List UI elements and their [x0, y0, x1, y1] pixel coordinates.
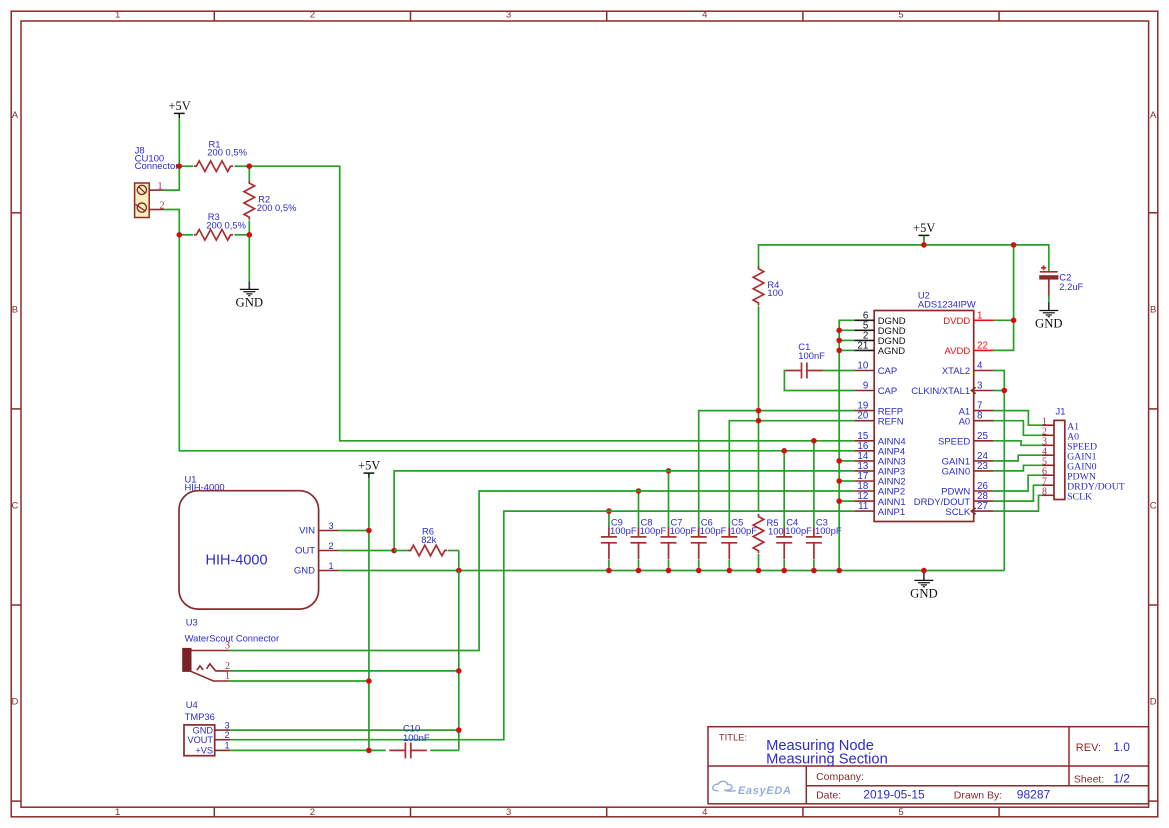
U2 pin 21 AGND: [854, 340, 905, 357]
U2 pin 7 A1: [959, 401, 994, 418]
svg-text:100nF: 100nF: [403, 732, 430, 743]
wire U4 GND row: [230, 729, 459, 731]
svg-text:Drawn By:: Drawn By:: [954, 790, 1002, 802]
junction VIN/+5V: [366, 528, 372, 534]
U2 pin 24 GAIN1: [942, 451, 994, 468]
IC U4 TMP36: [184, 699, 215, 756]
svg-text:8: 8: [977, 411, 983, 422]
junction C7 bottom: [666, 568, 672, 574]
svg-text:11: 11: [858, 501, 868, 512]
junction C4 bottom: [781, 568, 787, 574]
svg-text:2: 2: [329, 541, 334, 551]
svg-text:HIH-4000: HIH-4000: [185, 481, 225, 492]
J1 pin 3: [1042, 437, 1054, 448]
junction bus/DGND vertical: [836, 568, 842, 574]
resistor R3: [194, 211, 246, 240]
svg-text:98287: 98287: [1017, 788, 1051, 802]
svg-text:100pF: 100pF: [785, 525, 812, 536]
svg-text:9: 9: [863, 381, 868, 392]
wire VIN to +5V: [339, 530, 369, 532]
wire DGND bus (left of U2): [839, 320, 854, 570]
svg-text:2: 2: [310, 807, 315, 818]
IC U2 ADS1234IPW: [874, 290, 976, 522]
svg-text:1: 1: [158, 181, 163, 192]
net label SCLK: [1067, 492, 1092, 503]
wire DVDD/AVDD supply: [994, 245, 1014, 351]
junction DGND pin5: [836, 328, 842, 334]
U2 pin 18 AINP2: [854, 481, 905, 498]
net label A1: [1067, 422, 1079, 433]
junction C6 bottom: [696, 568, 702, 574]
wire R2 leads: [248, 166, 250, 235]
wire R1 right to AINN4: [249, 166, 854, 441]
power flag +5V (top left): [169, 99, 191, 118]
U2 pin 25 SPEED: [938, 431, 994, 448]
capacitor C10: [389, 723, 430, 759]
U2 pin 26 PDWN: [941, 481, 994, 498]
junction R3 left: [177, 232, 183, 238]
svg-text:B: B: [1150, 304, 1156, 315]
svg-text:4: 4: [702, 10, 707, 21]
J1 pin 6: [1042, 466, 1054, 477]
ground (C2): [1035, 303, 1063, 331]
svg-text:1/2: 1/2: [1113, 772, 1130, 786]
svg-text:22: 22: [977, 340, 988, 351]
wire A1: [994, 411, 1042, 426]
svg-text:Connector: Connector: [135, 161, 179, 172]
junction R2/R3/GND: [247, 232, 253, 238]
wire GND bus bottom: [339, 570, 1004, 572]
svg-text:OUT: OUT: [295, 546, 315, 557]
U4 pin 1 +VS: [195, 741, 230, 756]
junction U3 pin1/+5V: [366, 678, 372, 684]
svg-text:5: 5: [898, 10, 903, 21]
net label GAIN0: [1067, 462, 1096, 473]
wire U3 pin2 to GND drop: [229, 670, 459, 672]
U1 pin 1 GND: [294, 561, 339, 577]
junction C9 bottom: [606, 568, 612, 574]
junction DVDD: [1011, 318, 1017, 324]
svg-text:10: 10: [857, 361, 868, 372]
svg-text:DVDD: DVDD: [943, 316, 970, 327]
sensor U1 HIH-4000: [179, 474, 319, 610]
svg-text:Sheet:: Sheet:: [1074, 774, 1104, 786]
svg-text:Company:: Company:: [816, 771, 864, 783]
U2 pin 27 SCLK: [945, 501, 993, 518]
capacitor C5: [721, 516, 757, 570]
svg-text:100pF: 100pF: [700, 525, 727, 536]
svg-text:REFN: REFN: [878, 416, 904, 427]
junction +VS/+5V: [366, 748, 372, 754]
capacitor C2: [1039, 265, 1083, 295]
U1 pin 3 VIN: [299, 521, 339, 537]
wire U3 pin3 to AINP2: [229, 491, 854, 651]
wire XTAL2/CLKIN to GND bus: [994, 371, 1005, 571]
U3 pin 3: [192, 641, 231, 652]
svg-text:J1: J1: [1056, 406, 1066, 417]
net label PDWN: [1067, 472, 1096, 483]
svg-text:5: 5: [898, 807, 903, 818]
U2 pin 16 AINP4: [854, 441, 905, 458]
svg-text:VIN: VIN: [299, 526, 315, 537]
U1 pin 2 OUT: [295, 541, 339, 557]
resistor R1: [194, 138, 247, 171]
svg-text:4: 4: [702, 807, 707, 818]
U2 pin 28 DRDY/DOUT: [914, 491, 994, 508]
U2 pin 9 CAP: [854, 381, 897, 398]
capacitor C7: [661, 471, 697, 571]
svg-text:100pF: 100pF: [815, 525, 842, 536]
svg-text:2: 2: [310, 10, 315, 21]
junction AINN1: [836, 498, 842, 504]
junction C3 top: [811, 438, 817, 444]
svg-text:3: 3: [506, 10, 511, 21]
wire R1 row: [179, 165, 249, 167]
junction C3 bottom: [811, 568, 817, 574]
svg-text:SPEED: SPEED: [938, 437, 970, 448]
J1 pin 7: [1042, 476, 1054, 487]
svg-text:1: 1: [225, 741, 230, 751]
J1 pin 1: [1042, 416, 1054, 427]
svg-text:GAIN0: GAIN0: [942, 467, 971, 478]
U4 pin 2 VOUT: [187, 730, 230, 745]
J8 pin 2: [149, 200, 164, 211]
svg-text:AGND: AGND: [878, 346, 906, 357]
junction bus/GND flag: [921, 568, 927, 574]
svg-text:1.0: 1.0: [1113, 740, 1130, 754]
U2 pin 8 A0: [959, 411, 994, 428]
svg-text:4: 4: [977, 361, 983, 372]
EasyEDA logo: [713, 781, 792, 797]
wire REFN row: [729, 421, 854, 536]
wire +5V to J8 pin1 and R1: [163, 118, 179, 190]
junction R5 bottom: [756, 568, 762, 574]
svg-text:100nF: 100nF: [798, 350, 825, 361]
J1 pin 8: [1042, 487, 1054, 498]
svg-text:VOUT: VOUT: [187, 735, 213, 745]
wire C2 to GND: [1048, 296, 1050, 303]
connector J8: [135, 146, 179, 218]
U4 pin 3 GND: [193, 720, 231, 735]
junction DGND pin2: [836, 338, 842, 344]
power flag +5V (top right): [913, 221, 935, 240]
wire J8 pin2 to AINP4: [163, 210, 854, 451]
svg-text:WaterScout Connector: WaterScout Connector: [185, 632, 280, 643]
wire GND drop (bus to C10): [458, 571, 460, 751]
junction CLKIN: [1002, 388, 1008, 394]
wire +5V rail: [759, 236, 1049, 272]
U2 pin 1 DVDD: [943, 310, 993, 327]
svg-text:100: 100: [768, 525, 784, 536]
svg-text:1: 1: [115, 10, 120, 21]
junction C8 top: [636, 488, 642, 494]
wire R5 bottom: [758, 554, 760, 571]
svg-text:HIH-4000: HIH-4000: [205, 553, 267, 569]
svg-text:CLKIN/XTAL1: CLKIN/XTAL1: [911, 386, 970, 397]
U2 pin 20 REFN: [854, 411, 904, 428]
svg-text:20: 20: [857, 411, 868, 422]
svg-text:TMP36: TMP36: [185, 711, 215, 722]
junction C5 bottom: [727, 568, 733, 574]
junction +5V/R1: [177, 163, 183, 169]
svg-text:2019-05-15: 2019-05-15: [863, 788, 925, 802]
net label DRDY/DOUT: [1067, 482, 1125, 493]
svg-text:C: C: [1150, 500, 1157, 511]
resistor R4: [753, 266, 783, 305]
svg-text:200 0,5%: 200 0,5%: [207, 147, 247, 158]
U2 pin 23 GAIN0: [942, 461, 994, 478]
svg-text:100pF: 100pF: [670, 525, 697, 536]
junction C7 top: [666, 468, 672, 474]
svg-text:D: D: [11, 697, 18, 708]
svg-text:C: C: [11, 500, 18, 511]
wire GAIN0: [994, 465, 1042, 471]
U2 pin 19 REFP: [854, 401, 903, 418]
junction R6/bus: [456, 568, 462, 574]
J1 pin 4: [1042, 446, 1054, 457]
junction OUT/R6/AINP3: [391, 548, 397, 554]
resistor R2: [244, 181, 296, 220]
connector U3 WaterScout: [182, 617, 279, 672]
wire U4 VOUT to AINP1: [230, 511, 854, 740]
capacitor C1: [785, 341, 825, 378]
svg-text:Date:: Date:: [816, 790, 841, 802]
U3 pin 1 (sleeve contact): [191, 671, 231, 682]
svg-text:3: 3: [329, 521, 334, 531]
power flag +5V (middle): [358, 459, 380, 478]
svg-text:CAP: CAP: [878, 386, 898, 397]
svg-text:SCLK: SCLK: [945, 507, 970, 518]
svg-text:A0: A0: [959, 416, 971, 427]
wire GAIN1: [994, 455, 1042, 461]
svg-text:B: B: [12, 304, 18, 315]
svg-text:1: 1: [115, 807, 120, 818]
svg-text:82k: 82k: [421, 534, 436, 545]
svg-text:2.2uF: 2.2uF: [1059, 281, 1083, 292]
U2 pin 15 AINN4: [854, 431, 905, 448]
wire R6 to bus: [458, 551, 460, 571]
svg-text:2: 2: [225, 730, 230, 740]
wire OUT row: [339, 550, 394, 552]
resistor R6: [394, 525, 459, 556]
svg-text:A: A: [1150, 110, 1157, 121]
capacitor C9: [601, 511, 637, 570]
svg-text:25: 25: [977, 431, 988, 442]
wire CAP pins / C1: [784, 371, 854, 391]
svg-text:3: 3: [506, 807, 511, 818]
junction C8 bottom: [636, 568, 642, 574]
svg-text:EasyEDA: EasyEDA: [738, 785, 792, 797]
svg-text:8: 8: [1042, 487, 1047, 498]
capacitor C4: [776, 451, 812, 571]
wire A0: [994, 421, 1042, 436]
svg-text:3: 3: [225, 720, 230, 730]
svg-text:1: 1: [329, 561, 334, 571]
wire SPEED: [994, 441, 1042, 446]
svg-text:U3: U3: [186, 617, 198, 628]
wire AINP3 riser: [394, 471, 854, 551]
U2 pin 3 CLKIN/XTAL1: [911, 381, 993, 398]
svg-text:D: D: [1150, 697, 1157, 708]
connector J1: [1054, 406, 1065, 500]
svg-text:21: 21: [857, 340, 868, 351]
U2 pin 10 CAP: [854, 361, 897, 378]
wire SCLK: [994, 495, 1042, 511]
wire R2/R3 to GND: [248, 235, 250, 282]
junction C4 top: [781, 448, 787, 454]
J1 pin 5: [1042, 457, 1054, 468]
svg-text:AINP1: AINP1: [878, 507, 905, 518]
U2 pin 5 DGND: [854, 320, 906, 337]
net label GAIN1: [1067, 452, 1096, 463]
junction AGND pin21: [836, 348, 842, 354]
net label SPEED: [1067, 442, 1097, 453]
svg-text:AVDD: AVDD: [944, 346, 970, 357]
svg-text:3: 3: [977, 381, 983, 392]
ground (R2/R3): [236, 281, 263, 309]
U2 pin 2 DGND: [854, 330, 906, 347]
svg-text:23: 23: [977, 461, 988, 472]
U2 pin 14 AINN3: [854, 451, 905, 468]
wire DRDY/DOUT: [994, 485, 1042, 501]
capacitor C3: [806, 441, 842, 571]
U2 pin 17 AINN2: [854, 471, 905, 488]
net label A0: [1067, 432, 1079, 443]
junction U4 GND: [456, 727, 462, 733]
U2 pin 11 AINP1: [854, 501, 905, 518]
wire R4 to R5 (REFP/REFN): [758, 306, 760, 512]
svg-text:REV:: REV:: [1076, 742, 1101, 754]
junction AINN3: [836, 458, 842, 464]
wire +5V middle vertical: [368, 478, 370, 751]
junction rail/+5V: [921, 242, 927, 248]
svg-text:1: 1: [977, 310, 982, 321]
svg-text:GND: GND: [294, 566, 315, 577]
junction rail/DVDD: [1011, 242, 1017, 248]
wire R3 row: [179, 234, 249, 236]
J1 pin 2: [1042, 427, 1054, 438]
svg-text:XTAL2: XTAL2: [942, 366, 970, 377]
junction C9 top: [606, 508, 612, 514]
resistor R5: [753, 514, 783, 553]
U2 pin 22 AVDD: [944, 340, 993, 357]
junction U3 pin2/GND: [456, 668, 462, 674]
svg-text:200 0,5%: 200 0,5%: [257, 202, 297, 213]
capacitor C6: [691, 516, 727, 570]
junction AINN2: [836, 478, 842, 484]
junction R1/R2: [247, 163, 253, 169]
svg-text:CAP: CAP: [878, 366, 898, 377]
ground (bus): [910, 572, 938, 600]
U2 pin 12 AINN1: [854, 491, 905, 508]
svg-text:200 0,5%: 200 0,5%: [206, 219, 246, 230]
svg-text:100pF: 100pF: [640, 525, 667, 536]
U2 pin 4 XTAL2: [942, 361, 994, 378]
wire REFP row: [699, 411, 855, 536]
svg-text:TITLE:: TITLE:: [719, 732, 747, 743]
junction R4/REFN: [756, 418, 762, 424]
svg-text:Measuring Section: Measuring Section: [766, 751, 888, 767]
svg-text:+VS: +VS: [195, 746, 213, 756]
wire PDWN: [994, 475, 1042, 491]
svg-text:GND: GND: [193, 725, 214, 735]
svg-text:100pF: 100pF: [730, 525, 757, 536]
svg-text:SCLK: SCLK: [1067, 492, 1092, 503]
U2 pin 13 AINP3: [854, 461, 905, 478]
U2 pin 6 DGND: [854, 310, 906, 327]
svg-text:ADS1234IPW: ADS1234IPW: [918, 299, 976, 310]
svg-text:U4: U4: [186, 699, 198, 710]
U3 pin 2 (tip contact): [197, 661, 230, 672]
wire U3 pin1 to +5V: [229, 680, 369, 682]
wire U4 +VS / C10 row: [230, 749, 459, 751]
svg-text:100pF: 100pF: [610, 525, 637, 536]
junction R4/REFP: [756, 408, 762, 414]
capacitor C8: [631, 491, 667, 571]
svg-text:100: 100: [767, 287, 783, 298]
title block: [708, 727, 1149, 804]
svg-text:A: A: [12, 110, 19, 121]
J8 pin 1: [149, 181, 163, 192]
svg-text:27: 27: [977, 501, 988, 512]
